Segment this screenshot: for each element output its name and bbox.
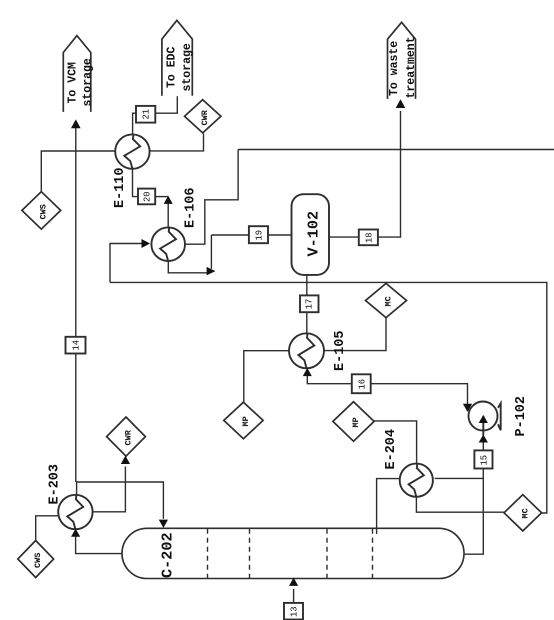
svg-text:E-110: E-110 (113, 167, 128, 208)
banner To VCM storage (63, 36, 91, 112)
wire E-110 top to tag 21 (133, 113, 136, 134)
heat exchanger E-106 (151, 227, 185, 261)
wire recycle from long line into E-106 left (110, 244, 145, 283)
wire long horizontal line y=149.5 to right edge (238, 149, 554, 151)
diamond CWR1 (185, 100, 221, 133)
diamond CWS2 (18, 541, 54, 578)
svg-text:MC: MC (521, 508, 531, 518)
wire MP2 diamond to E-204 top (374, 421, 417, 464)
svg-text:19: 19 (255, 230, 265, 241)
svg-text:14: 14 (72, 340, 82, 351)
wire E-204 left down into column shell (377, 479, 400, 534)
wire E-106 top riser (167, 197, 169, 228)
diamond CWS1 (22, 192, 61, 229)
svg-text:CWS: CWS (39, 204, 49, 219)
tag box 16 (352, 374, 371, 393)
svg-text:P-102: P-102 (514, 396, 529, 437)
wire MC1 diamond to E-105 right (324, 318, 386, 351)
svg-text:16: 16 (358, 379, 368, 390)
wire E-204 right to pump suction line junction (435, 477, 484, 479)
arrowhead up into CWR2 diamond (121, 456, 130, 464)
arrowhead up into E-105 bottom (303, 368, 312, 376)
tag box 13 (284, 603, 303, 620)
svg-text:MC: MC (384, 296, 394, 306)
banner To EDC storage (162, 20, 192, 95)
arrowhead up below P-102 (479, 434, 488, 442)
wire tag 21 to EDC banner (155, 96, 177, 113)
svg-text:treatment: treatment (405, 36, 418, 98)
tag box 17 (300, 295, 319, 312)
wire CWS2 diamond to E-203 left (36, 516, 59, 541)
tag box 15 (474, 450, 492, 468)
wire column feed from tag 13 (293, 589, 295, 603)
wire reflux from junction into column top (77, 482, 164, 519)
diamond MP2 (333, 402, 374, 442)
svg-text:CWR: CWR (124, 429, 134, 445)
arrowhead up at E-106 top junction (164, 196, 173, 204)
svg-text:CWS: CWS (33, 553, 43, 568)
arrowhead into waste banner (396, 99, 406, 108)
svg-text:MP: MP (241, 416, 251, 426)
svg-text:17: 17 (305, 299, 315, 310)
arrowhead right at E-106 outlet junction (207, 267, 216, 276)
arrowhead up into column bottom (feed 13) (289, 578, 298, 586)
heat exchanger E-204 (400, 464, 433, 497)
column C-202 (122, 528, 464, 578)
banner To waste treatment (388, 22, 416, 99)
wire tag 18 to waste riser (378, 111, 401, 237)
wire tag 19 to V-102 left (268, 234, 292, 236)
wire E-203 top riser (76, 482, 78, 495)
wire E-105 bottom to tag 16 line (307, 372, 352, 384)
svg-text:13: 13 (290, 606, 300, 617)
diamond MP1 (224, 402, 263, 439)
diamond MC2 (504, 495, 542, 531)
arrowhead down into P-102 top (463, 404, 472, 412)
wire tag 16 to P-102 top (371, 384, 468, 405)
tag box 21 (136, 106, 155, 123)
wire long horizontal line y=282.3 with right drop to MC2 (110, 282, 547, 513)
arrowhead up inside P-102 (479, 415, 488, 423)
wire E-110 right to CWR1 diamond (150, 133, 204, 151)
wire V-102 right to tag 18 (329, 236, 359, 238)
wire V-102 bottom to tag 17 (306, 275, 308, 296)
wire E-203 bottom to column left end (76, 534, 122, 554)
tag box 19 (249, 226, 268, 243)
tray dashed line 2 (249, 529, 251, 578)
wire tag 19 drop to E-106 outlet junction (210, 235, 212, 269)
svg-text:21: 21 (142, 109, 152, 120)
svg-text:E-106: E-106 (184, 187, 199, 228)
heat exchanger E-110 (115, 134, 149, 168)
svg-text:20: 20 (143, 191, 153, 202)
wire stream 14 vertical (E-203 junction up to VCM arrow) (75, 127, 77, 482)
wire E-203 right to CWR2 diamond riser (93, 467, 126, 512)
diamond MC1 (366, 283, 407, 317)
arrowhead down reflux into column (159, 520, 168, 528)
wire E-110 bottom to tag 20 (133, 169, 139, 197)
wire E-106 right up to long line y=149.5 (185, 150, 238, 245)
svg-text:18: 18 (365, 232, 375, 243)
svg-text:C-202: C-202 (159, 532, 177, 578)
wire MP1 diamond to E-105 left (244, 351, 289, 403)
tag box 18 (359, 230, 378, 246)
svg-text:V-102: V-102 (305, 211, 323, 257)
tray dashed line 4 (372, 529, 374, 578)
svg-text:15: 15 (480, 455, 490, 466)
wire E-204 bottom to MC2 diamond (416, 497, 504, 512)
wire tag 15 down to column right end (464, 469, 484, 555)
arrowhead up into E-203 bottom (71, 529, 80, 537)
svg-text:To waste: To waste (388, 41, 401, 96)
svg-text:To EDC: To EDC (166, 46, 179, 88)
svg-text:To VCM: To VCM (67, 62, 80, 104)
tag box 20 (138, 189, 155, 205)
tag box 14 (66, 337, 86, 354)
svg-text:storage: storage (181, 43, 194, 91)
heat exchanger E-105 (289, 333, 324, 368)
svg-text:MP: MP (351, 417, 361, 427)
wire CWS1 diamond supply line to E-110 left (41, 151, 115, 192)
svg-text:storage: storage (82, 58, 95, 106)
vessel V-102 (292, 194, 330, 275)
diamond CWR2 (107, 417, 146, 456)
wire tag 20 to E-106 top junction (155, 196, 168, 198)
svg-text:E-105: E-105 (333, 330, 348, 371)
svg-text:E-204: E-204 (384, 429, 399, 470)
svg-text:CWR: CWR (200, 109, 210, 125)
arrowhead right into E-106 left (142, 239, 151, 248)
wire E-106 bottom outlet (168, 261, 207, 273)
heat exchanger E-203 (58, 495, 92, 529)
tray dashed line 1 (207, 529, 209, 578)
tray dashed line 3 (326, 529, 328, 578)
arrowhead into VCM banner (71, 119, 81, 128)
wire P-102 suction through tag 15 (482, 417, 484, 450)
pump P-102 (469, 402, 501, 436)
wire tag 17 to E-105 top (306, 312, 308, 333)
svg-text:E-203: E-203 (48, 464, 63, 505)
wire tag 19 line left of box (211, 234, 249, 236)
